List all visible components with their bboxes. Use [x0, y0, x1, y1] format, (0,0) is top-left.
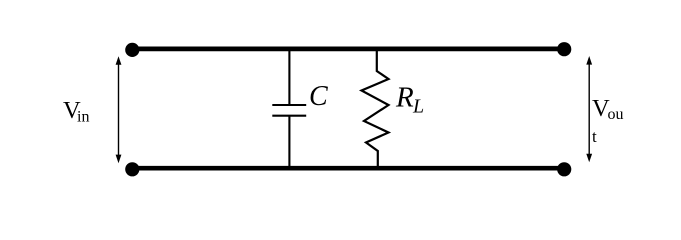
capacitor C plates: [272, 105, 306, 116]
wire top rail: [132, 47, 564, 52]
wire from top rail to capacitor C: [288, 51, 290, 105]
svg-text:L: L: [412, 96, 424, 118]
node Vout label: [592, 95, 624, 146]
node top-right terminal: [557, 42, 571, 56]
svg-text:t: t: [592, 127, 597, 146]
svg-text:R: R: [395, 81, 414, 113]
node top-left terminal: [125, 43, 139, 57]
resistor RL value label: [395, 81, 424, 117]
resistor RL zigzag: [362, 51, 389, 166]
wire from capacitor C to bottom rail: [288, 116, 290, 166]
svg-text:C: C: [309, 81, 328, 112]
node bottom-left terminal: [125, 162, 139, 176]
Vout measurement arrow (double-headed): [586, 56, 592, 162]
Vin measurement arrow (double-headed): [116, 56, 122, 163]
svg-text:in: in: [77, 108, 89, 125]
node Vin label: [63, 97, 89, 125]
wire bottom rail: [132, 166, 564, 171]
node bottom-right terminal: [557, 162, 571, 176]
svg-text:ou: ou: [608, 106, 624, 123]
